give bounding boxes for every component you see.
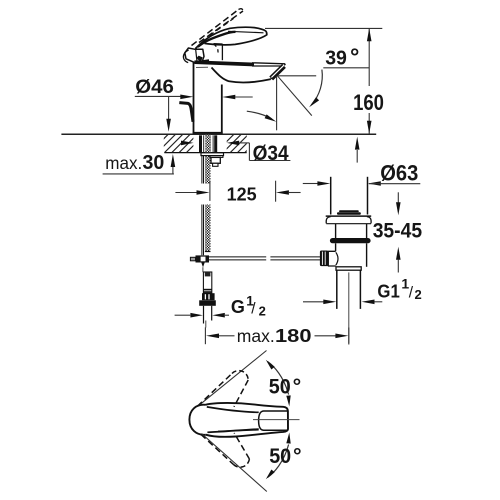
waste top tube (D63) [330, 177, 332, 215]
svg-text:2: 2 [415, 287, 422, 302]
svg-text:max.: max. [237, 326, 275, 346]
dimension 160 [368, 28, 370, 86]
spout end face and aerator [270, 64, 286, 80]
G 1/2 connection nipple [202, 267, 204, 272]
lower 50 deg arc [268, 445, 289, 478]
waste tailpipe (G 1 1/2) [336, 270, 338, 309]
dimension D63 [303, 183, 318, 185]
handle rotation upper diagonal [199, 351, 266, 406]
counter slab bottom line [164, 152, 246, 154]
svg-text:/: / [409, 285, 414, 302]
svg-text:125: 125 [227, 183, 257, 204]
upper dashed handle position [198, 374, 233, 407]
waste plug dome [339, 210, 359, 212]
threaded shank in mounting hole [205, 135, 211, 153]
dimension G 1/2 arrows [175, 314, 191, 316]
dimension 125 [175, 192, 197, 194]
handle rotation lower diagonal [202, 434, 267, 492]
faucet body outline [193, 62, 195, 134]
body top seam band [195, 60, 255, 66]
washer below counter [201, 153, 224, 156]
water stream diagonal [277, 76, 311, 116]
waste neck [335, 224, 337, 238]
svg-text:/: / [251, 300, 256, 317]
flow direction curved arrow [247, 111, 272, 119]
counter slab hatching [148, 134, 271, 155]
spout horizontal reference [278, 75, 316, 77]
waste O-ring seal [330, 238, 371, 243]
top reference line [265, 27, 382, 29]
handle detail solid outline [189, 405, 205, 435]
dimension D34 [181, 141, 194, 146]
svg-text:G1: G1 [377, 281, 399, 301]
rod coupling joint [196, 255, 210, 262]
dimension G 1 1/2 arrows [303, 301, 324, 303]
cartridge cap edge [221, 44, 223, 60]
svg-text:°: ° [293, 374, 302, 398]
svg-text:50: 50 [269, 444, 291, 468]
mounting nut [211, 157, 220, 163]
spout top edge [252, 63, 285, 64]
lever nose [185, 48, 204, 63]
svg-text:39: 39 [325, 47, 347, 69]
lower dashed handle position [201, 434, 233, 464]
svg-text:°: ° [350, 43, 359, 69]
dashed raised lever position [192, 10, 239, 46]
svg-text:30: 30 [143, 152, 165, 174]
dimension 35-45 [397, 192, 399, 202]
waste body [335, 243, 337, 251]
svg-text:Ø34: Ø34 [253, 141, 289, 165]
waste side spigot [328, 251, 336, 266]
upper 50 deg arc [268, 362, 289, 395]
dimension max180 [204, 327, 206, 344]
counter reference line [61, 133, 376, 135]
svg-text:160: 160 [353, 90, 384, 115]
svg-text:35-45: 35-45 [373, 219, 422, 243]
svg-text:max.: max. [105, 153, 142, 173]
dimension D46 right arrow [222, 95, 235, 100]
svg-text:G: G [231, 297, 245, 317]
spout underside and body fillet [212, 68, 271, 83]
pop-up vertical rod [201, 156, 203, 184]
svg-text:50: 50 [269, 374, 291, 398]
flexible hose (braided) below counter [205, 153, 211, 184]
horizontal pop-up actuation rod [209, 256, 266, 258]
spout tip projection line [276, 76, 278, 131]
svg-text:Ø63: Ø63 [380, 161, 418, 186]
svg-text:180: 180 [275, 325, 312, 346]
pop-up drain rod (rear) [179, 103, 193, 122]
knurled adjustment knob [320, 251, 329, 267]
waste flange [326, 215, 372, 217]
lever handle (solid) [196, 27, 267, 48]
lever nose front lip [183, 50, 188, 63]
arrow to underside of counter [356, 150, 358, 163]
waste body collar [336, 267, 361, 270]
handle detail centerline [253, 419, 300, 421]
svg-text:Ø46: Ø46 [135, 76, 174, 98]
svg-text:2: 2 [259, 303, 266, 318]
waste centerline [348, 272, 350, 343]
angle 39 deg arc [311, 70, 322, 106]
washer step [210, 156, 223, 158]
svg-text:°: ° [293, 444, 302, 468]
